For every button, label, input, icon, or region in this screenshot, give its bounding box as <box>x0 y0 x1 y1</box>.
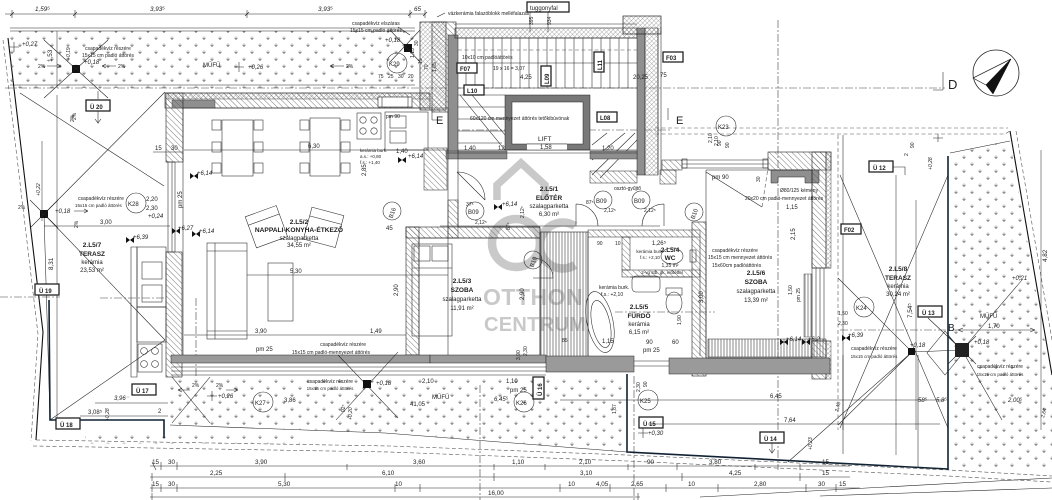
east terrace X lines <box>838 175 1022 428</box>
kitchen stove top <box>357 113 381 139</box>
walkway south dark boundary <box>627 374 948 469</box>
dim 3,90 living <box>184 329 406 335</box>
svg-text:+6,14: +6,14 <box>786 337 802 343</box>
label K23 <box>716 116 736 136</box>
svg-text:23,53 m²: 23,53 m² <box>80 268 104 274</box>
svg-text:szalagparketta: szalagparketta <box>442 297 482 303</box>
svg-text:15: 15 <box>822 459 830 466</box>
svg-text:szalagparketta: szalagparketta <box>736 289 776 295</box>
svg-text:6,30 m²: 6,30 m² <box>539 212 559 218</box>
svg-text:58⁵: 58⁵ <box>918 397 928 404</box>
svg-text:F07: F07 <box>460 67 471 73</box>
svg-text:3,10: 3,10 <box>580 470 593 477</box>
svg-text:8,31: 8,31 <box>48 257 55 270</box>
svg-text:+0,18: +0,18 <box>376 381 392 387</box>
svg-text:2,12⁵: 2,12⁵ <box>604 208 616 214</box>
room label wc <box>636 240 682 275</box>
svg-text:2,30: 2,30 <box>838 321 848 327</box>
level +6,14 living NE <box>398 154 424 163</box>
svg-text:2.L5/8: 2.L5/8 <box>889 266 908 273</box>
east terrace boundary dark <box>947 156 949 470</box>
svg-text:3,90: 3,90 <box>255 329 267 335</box>
svg-text:2,85: 2,85 <box>362 164 368 176</box>
svg-text:1,50: 1,50 <box>788 285 794 295</box>
svg-text:75: 75 <box>378 74 384 80</box>
label U12 <box>869 161 905 175</box>
svg-text:19 x 16 = 3,07: 19 x 16 = 3,07 <box>493 66 525 72</box>
svg-text:2,12⁵: 2,12⁵ <box>520 206 526 218</box>
svg-text:1,20: 1,20 <box>602 146 614 152</box>
interior thin outline bedroom1 <box>419 238 540 355</box>
svg-text:3,80: 3,80 <box>709 459 722 466</box>
svg-text:B: B <box>948 323 955 334</box>
label U16 rotated <box>533 377 544 399</box>
shaft wall striped between bedroom1 and bathroom <box>540 232 588 360</box>
note csapadékvíz top center <box>350 21 410 35</box>
top-right corner block of stair hall <box>623 16 661 34</box>
svg-text:1,87: 1,87 <box>612 404 618 414</box>
svg-text:10: 10 <box>688 481 696 488</box>
centerline vertical x634 <box>633 376 635 500</box>
room label terasz east <box>885 266 911 298</box>
svg-text:vázkerámia falazóblokk melléfa: vázkerámia falazóblokk melléfalazás <box>448 11 530 17</box>
wardrobe stripes bedroom2 <box>708 339 826 357</box>
svg-text:3,60: 3,60 <box>413 459 426 466</box>
svg-text:1,53: 1,53 <box>47 49 54 62</box>
drain top K29 <box>390 30 420 62</box>
drain west terrace <box>30 200 58 228</box>
label U13 <box>918 306 942 317</box>
svg-text:Ø80/125 kémény: Ø80/125 kémény <box>780 188 819 194</box>
svg-text:30: 30 <box>756 176 762 182</box>
svg-text:15x15 cm padló-mennyezet áttör: 15x15 cm padló-mennyezet áttörés <box>292 350 371 356</box>
interior thin outline living <box>183 108 448 355</box>
chairs table1 <box>212 120 263 173</box>
svg-text:pm 25: pm 25 <box>510 388 527 394</box>
svg-text:37⁵: 37⁵ <box>466 202 474 208</box>
note keramia burk stairhall <box>360 148 387 165</box>
svg-text:+0,18: +0,18 <box>974 340 990 346</box>
svg-text:csapadékvíz elszáras: csapadékvíz elszáras <box>352 21 400 27</box>
label U19 <box>35 284 59 295</box>
svg-text:K24: K24 <box>856 306 867 312</box>
svg-text:+0,26: +0,26 <box>218 394 234 400</box>
compass <box>973 50 1019 96</box>
site boundary top-right <box>655 127 1008 129</box>
svg-text:2.L5/6: 2.L5/6 <box>747 270 766 277</box>
svg-text:+0,27: +0,27 <box>22 42 38 48</box>
drain top band <box>44 40 108 98</box>
svg-text:4,25: 4,25 <box>520 75 532 81</box>
svg-text:75: 75 <box>660 73 667 79</box>
svg-text:Ü 20: Ü 20 <box>90 104 103 111</box>
walkway drain mid2 <box>788 352 918 468</box>
svg-text:1,65: 1,65 <box>432 62 438 72</box>
svg-text:B09: B09 <box>596 199 607 205</box>
svg-text:Ü 14: Ü 14 <box>764 436 777 443</box>
survey closing lines bottom right <box>700 478 1052 497</box>
section label D <box>933 72 957 92</box>
svg-text:Ü 13: Ü 13 <box>922 310 935 317</box>
svg-text:1,26⁵: 1,26⁵ <box>652 240 667 247</box>
slope arrows top band <box>38 64 354 70</box>
svg-text:B09: B09 <box>634 199 645 205</box>
washbasin <box>632 276 660 292</box>
door threshold bottom <box>634 361 669 366</box>
svg-text:3,96⁻: 3,96⁻ <box>114 396 130 402</box>
svg-text:5,8⁵: 5,8⁵ <box>936 397 947 404</box>
watermark text OTTHON CENTRUM <box>483 284 586 336</box>
room label szoba3 <box>442 278 482 312</box>
bottom dimension row2 <box>150 470 850 481</box>
bedroom2 annotations <box>699 133 824 303</box>
svg-text:szalagparketta: szalagparketta <box>529 204 569 210</box>
terrace west slope X lines <box>20 92 165 420</box>
svg-text:15: 15 <box>155 146 162 152</box>
svg-text:4,25: 4,25 <box>729 470 742 477</box>
svg-text:pm 25: pm 25 <box>178 191 184 208</box>
svg-text:+0,20: +0,20 <box>348 407 354 420</box>
svg-text:1,70: 1,70 <box>988 324 1000 330</box>
corner level +0,27 <box>9 42 38 52</box>
svg-text:90: 90 <box>647 459 655 466</box>
corner X below building sw <box>172 377 210 423</box>
svg-text:L08: L08 <box>600 116 611 122</box>
svg-text:15x15 cm padló áttörés: 15x15 cm padló áttörés <box>75 203 123 208</box>
south wall of stair hall west part <box>446 151 507 159</box>
svg-text:csapadékvíz részére: csapadékvíz részére <box>977 364 1023 370</box>
svg-text:20x20 cm padló-mennyezet áttör: 20x20 cm padló-mennyezet áttörés <box>745 196 824 202</box>
window west living room <box>166 162 175 252</box>
svg-text:2%: 2% <box>192 383 200 389</box>
svg-text:92⁵: 92⁵ <box>341 404 347 412</box>
svg-text:15x15 cm mennyezet áttörés: 15x15 cm mennyezet áttörés <box>708 255 773 261</box>
svg-text:+0,23: +0,23 <box>808 437 814 450</box>
kitchen west counter column <box>137 247 166 342</box>
dining table 1 <box>222 120 253 176</box>
svg-text:6,15 m²: 6,15 m² <box>629 330 649 336</box>
svg-text:MŰFŰ: MŰFŰ <box>980 313 997 320</box>
svg-text:4,82: 4,82 <box>1042 249 1049 262</box>
svg-text:1,49: 1,49 <box>370 329 382 335</box>
label K26 <box>514 392 534 412</box>
stipple roof band top <box>10 28 415 88</box>
svg-text:2%: 2% <box>74 220 80 228</box>
svg-text:kerámia burk.: kerámia burk. <box>360 148 387 153</box>
svg-text:2,00⁵: 2,00⁵ <box>1007 397 1023 404</box>
svg-text:7,54⁵: 7,54⁵ <box>907 303 914 318</box>
section label E (left) <box>432 108 443 127</box>
svg-text:30: 30 <box>414 40 420 46</box>
drain east big <box>948 336 976 364</box>
svg-text:5,30: 5,30 <box>290 269 302 275</box>
svg-text:csapadékvíz részére: csapadékvíz részére <box>307 379 353 385</box>
svg-text:+0,22: +0,22 <box>36 183 42 196</box>
svg-text:2%: 2% <box>216 383 224 389</box>
toilet bathroom <box>666 288 682 314</box>
east terrace edge thin <box>837 135 839 430</box>
chimney bedroom2 <box>771 170 819 183</box>
label K24 <box>854 297 874 317</box>
label K25 <box>638 390 658 410</box>
svg-text:K28: K28 <box>128 202 139 208</box>
wall right of living room (lower part) <box>448 200 458 238</box>
svg-text:10x10 cm padlóáttörés: 10x10 cm padlóáttörés <box>462 55 513 61</box>
walkway dims <box>284 381 509 420</box>
svg-text:Ü 15: Ü 15 <box>643 421 656 428</box>
svg-text:2,30: 2,30 <box>146 206 158 212</box>
svg-text:90: 90 <box>643 381 649 387</box>
stipple walkway bottom <box>170 377 627 452</box>
svg-text:Ü 17: Ü 17 <box>136 388 149 395</box>
svg-text:2,10: 2,10 <box>422 379 434 385</box>
svg-text:30,24 m²: 30,24 m² <box>886 292 910 298</box>
svg-text:2,12⁵: 2,12⁵ <box>644 208 656 214</box>
note vázkerámia top <box>437 11 530 17</box>
bottom wall bedroom1 part <box>430 355 546 375</box>
svg-text:10: 10 <box>395 481 403 488</box>
svg-text:+6,39: +6,39 <box>133 235 149 241</box>
label B10 <box>524 251 542 269</box>
bed bedroom1 <box>412 244 452 336</box>
bottom wall bedroom2 part <box>669 358 830 374</box>
watermark OC logo <box>492 163 575 269</box>
wall stub NW of entrance <box>424 148 447 190</box>
level marks west <box>126 171 215 243</box>
label U18 <box>56 418 80 429</box>
wall top of living room <box>165 93 430 108</box>
site boundary left <box>8 38 43 440</box>
label F02 <box>841 224 861 234</box>
diamond east <box>927 331 963 375</box>
svg-text:1,10: 1,10 <box>506 379 518 385</box>
section line E-E <box>448 129 672 131</box>
svg-text:2.L5/2: 2.L5/2 <box>290 219 309 226</box>
svg-text:10: 10 <box>615 241 621 247</box>
svg-text:60x120 cm mennyezet áttörés te: 60x120 cm mennyezet áttörés tetőkibúvóna… <box>470 116 570 122</box>
svg-text:1,59⁵: 1,59⁵ <box>35 6 50 13</box>
svg-text:kerámia: kerámia <box>628 322 650 328</box>
svg-text:2.L5/5: 2.L5/5 <box>630 304 649 311</box>
svg-text:34,55 m²: 34,55 m² <box>287 243 311 249</box>
svg-text:20: 20 <box>408 74 414 80</box>
dim 5,30 living <box>247 269 448 275</box>
chimney block K29 area <box>420 22 456 112</box>
wall pier west of bedroom2 window <box>662 160 682 170</box>
section label E (right) <box>668 108 683 127</box>
svg-text:15x15 cm padló áttörés: 15x15 cm padló áttörés <box>977 372 1025 377</box>
svg-text:2.L5/3: 2.L5/3 <box>453 278 472 285</box>
label B09 b <box>594 191 612 209</box>
svg-text:SZOBA: SZOBA <box>745 279 768 286</box>
svg-text:6,45⁵: 6,45⁵ <box>494 396 509 403</box>
note csapadékvíz living se <box>292 342 371 356</box>
label U20 <box>86 100 110 111</box>
svg-text:K29: K29 <box>389 62 400 68</box>
svg-text:15: 15 <box>152 459 160 466</box>
dims K29 area <box>378 40 438 80</box>
svg-text:K26: K26 <box>516 401 527 407</box>
svg-text:2%: 2% <box>70 114 76 122</box>
svg-text:Ü 19: Ü 19 <box>39 288 52 295</box>
level +0,26 top band <box>234 62 264 72</box>
svg-text:87⁵: 87⁵ <box>506 222 512 230</box>
svg-text:25: 25 <box>388 74 394 80</box>
svg-text:41,05: 41,05 <box>410 402 426 408</box>
manifold osztó-gyűjtő <box>590 170 676 192</box>
svg-text:30: 30 <box>168 459 176 466</box>
svg-text:1,90: 1,90 <box>677 315 683 325</box>
svg-text:30: 30 <box>168 481 176 488</box>
svg-text:+0,28: +0,28 <box>928 157 934 170</box>
bottom wall with window sills (living part) <box>171 355 430 375</box>
svg-text:65: 65 <box>414 6 422 13</box>
svg-text:3,00: 3,00 <box>100 220 112 226</box>
interior outline bedroom2 <box>706 170 812 358</box>
stair flight diagonals east of lift <box>592 133 637 178</box>
svg-text:f.s.: +1,40: f.s.: +1,40 <box>360 160 380 165</box>
label L10 <box>464 85 484 95</box>
svg-text:SZOBA: SZOBA <box>451 287 474 294</box>
dim 15 30 west wall <box>153 146 183 152</box>
svg-text:+6,27: +6,27 <box>178 226 194 232</box>
section line B-B <box>840 329 958 331</box>
svg-text:1,15: 1,15 <box>410 48 416 58</box>
bedroom2 right wall upper <box>812 152 826 268</box>
dim 20,25 75 <box>633 73 667 81</box>
svg-text:2,90: 2,90 <box>394 284 400 296</box>
svg-text:K27: K27 <box>255 401 266 407</box>
svg-text:+6,39: +6,39 <box>848 333 864 339</box>
west terrace annotations <box>18 112 170 228</box>
svg-text:ELŐTÉR: ELŐTÉR <box>536 193 563 202</box>
lift label <box>538 136 552 151</box>
svg-text:2,25: 2,25 <box>210 470 223 477</box>
top wall of stair hall <box>455 24 637 38</box>
dim row lift level <box>446 146 637 153</box>
bottom dimension row4 <box>150 490 640 500</box>
svg-text:D: D <box>948 77 957 92</box>
bottom dimension row1 <box>150 459 850 470</box>
stipple strip bottom-left <box>85 432 300 444</box>
svg-text:L10: L10 <box>467 89 478 95</box>
centerline vertical x480 <box>479 385 481 500</box>
svg-text:70: 70 <box>424 64 430 70</box>
label K28 <box>126 193 146 213</box>
kitchen counter and sink <box>385 112 428 150</box>
svg-text:Ü 12: Ü 12 <box>873 165 886 172</box>
svg-text:30: 30 <box>398 74 404 80</box>
svg-text:kerámia burk.: kerámia burk. <box>636 249 663 254</box>
svg-text:+0,18: +0,18 <box>55 209 71 215</box>
label B10 bedroom2 <box>685 203 703 221</box>
svg-text:MŰFŰ: MŰFŰ <box>432 394 449 401</box>
svg-text:2%: 2% <box>38 64 46 70</box>
label U14 <box>760 432 784 453</box>
svg-text:kerámia: kerámia <box>887 284 909 290</box>
wall between living and stair hall <box>448 35 458 155</box>
bedroom2 top wall east part <box>768 152 831 170</box>
svg-text:TERASZ: TERASZ <box>885 275 911 282</box>
svg-text:Ü 18: Ü 18 <box>60 422 73 429</box>
svg-text:pm 25: pm 25 <box>256 347 273 353</box>
bath block bottom dims <box>562 315 683 354</box>
svg-text:90: 90 <box>910 142 916 148</box>
svg-text:30: 30 <box>171 146 178 152</box>
svg-text:+0,21: +0,21 <box>1012 276 1027 282</box>
wall between bath block and bedroom2 <box>692 222 706 376</box>
bottom dimension row3 <box>150 481 860 492</box>
label U17 <box>132 384 156 395</box>
svg-text:20,25: 20,25 <box>633 75 649 81</box>
svg-text:3,93⁵: 3,93⁵ <box>318 6 333 13</box>
svg-text:2%: 2% <box>18 205 26 211</box>
lift shaft walls <box>505 95 590 150</box>
svg-text:90: 90 <box>646 340 653 346</box>
room label fürdő <box>627 304 650 336</box>
svg-text:6,45: 6,45 <box>770 394 782 400</box>
svg-text:2,10: 2,10 <box>714 136 720 146</box>
east top dims <box>904 134 943 170</box>
svg-text:+0,19: +0,19 <box>66 47 72 60</box>
svg-text:3,08⁵: 3,08⁵ <box>88 409 103 416</box>
svg-text:10: 10 <box>568 481 576 488</box>
svg-text:2.L5/7: 2.L5/7 <box>83 242 102 249</box>
note csapadékvíz east stipple <box>977 364 1025 377</box>
walkway drain mid <box>336 352 398 420</box>
coffee table <box>268 263 293 321</box>
svg-text:2,20: 2,20 <box>146 197 158 203</box>
note csapadékvíz east terrace <box>851 346 899 359</box>
svg-text:a.s.: +0,80: a.s.: +0,80 <box>360 154 382 159</box>
staircase upper flight <box>458 38 637 88</box>
svg-text:+6,14: +6,14 <box>502 202 518 208</box>
svg-text:3,90: 3,90 <box>255 459 268 466</box>
svg-text:15: 15 <box>839 481 847 488</box>
svg-text:2,30: 2,30 <box>636 382 642 392</box>
svg-text:Ü 16: Ü 16 <box>537 383 544 396</box>
bathtub <box>581 289 619 355</box>
svg-text:B09: B09 <box>468 210 479 216</box>
svg-text:TERASZ: TERASZ <box>79 251 105 258</box>
svg-text:15x15 cm padló áttörés: 15x15 cm padló áttörés <box>350 28 402 34</box>
elotér small dims <box>440 225 660 227</box>
svg-text:30: 30 <box>818 481 826 488</box>
svg-text:16,00: 16,00 <box>488 490 504 497</box>
svg-text:csapadékvíz részére: csapadékvíz részére <box>85 46 131 52</box>
right vertical dim 4,82 <box>1041 150 1049 430</box>
svg-text:2,15: 2,15 <box>791 228 797 240</box>
svg-text:60: 60 <box>672 340 679 346</box>
stair railing dashes <box>458 49 637 51</box>
Ü20 leader <box>95 91 101 123</box>
svg-text:3,00: 3,00 <box>699 291 705 303</box>
bottom wall bathroom part <box>546 356 634 372</box>
label K27 <box>253 392 273 412</box>
radiator under east window bedroom2 <box>804 274 812 337</box>
svg-text:15x15 cm padló áttörés: 15x15 cm padló áttörés <box>851 354 899 359</box>
label L09 rotated <box>541 66 551 86</box>
svg-text:kerámia burk.: kerámia burk. <box>599 285 629 291</box>
svg-text:FÜRDŐ: FÜRDŐ <box>627 311 650 320</box>
svg-text:15x60cm padlóáttörés: 15x60cm padlóáttörés <box>712 263 762 269</box>
svg-text:2%: 2% <box>346 64 354 70</box>
note csapadékvíz bedroom2 <box>708 248 773 269</box>
svg-text:L09: L09 <box>545 73 551 84</box>
svg-text:+6,14: +6,14 <box>199 229 215 235</box>
right wall of stair hall <box>637 28 661 175</box>
svg-text:csapadékvíz részére: csapadékvíz részére <box>320 342 366 348</box>
